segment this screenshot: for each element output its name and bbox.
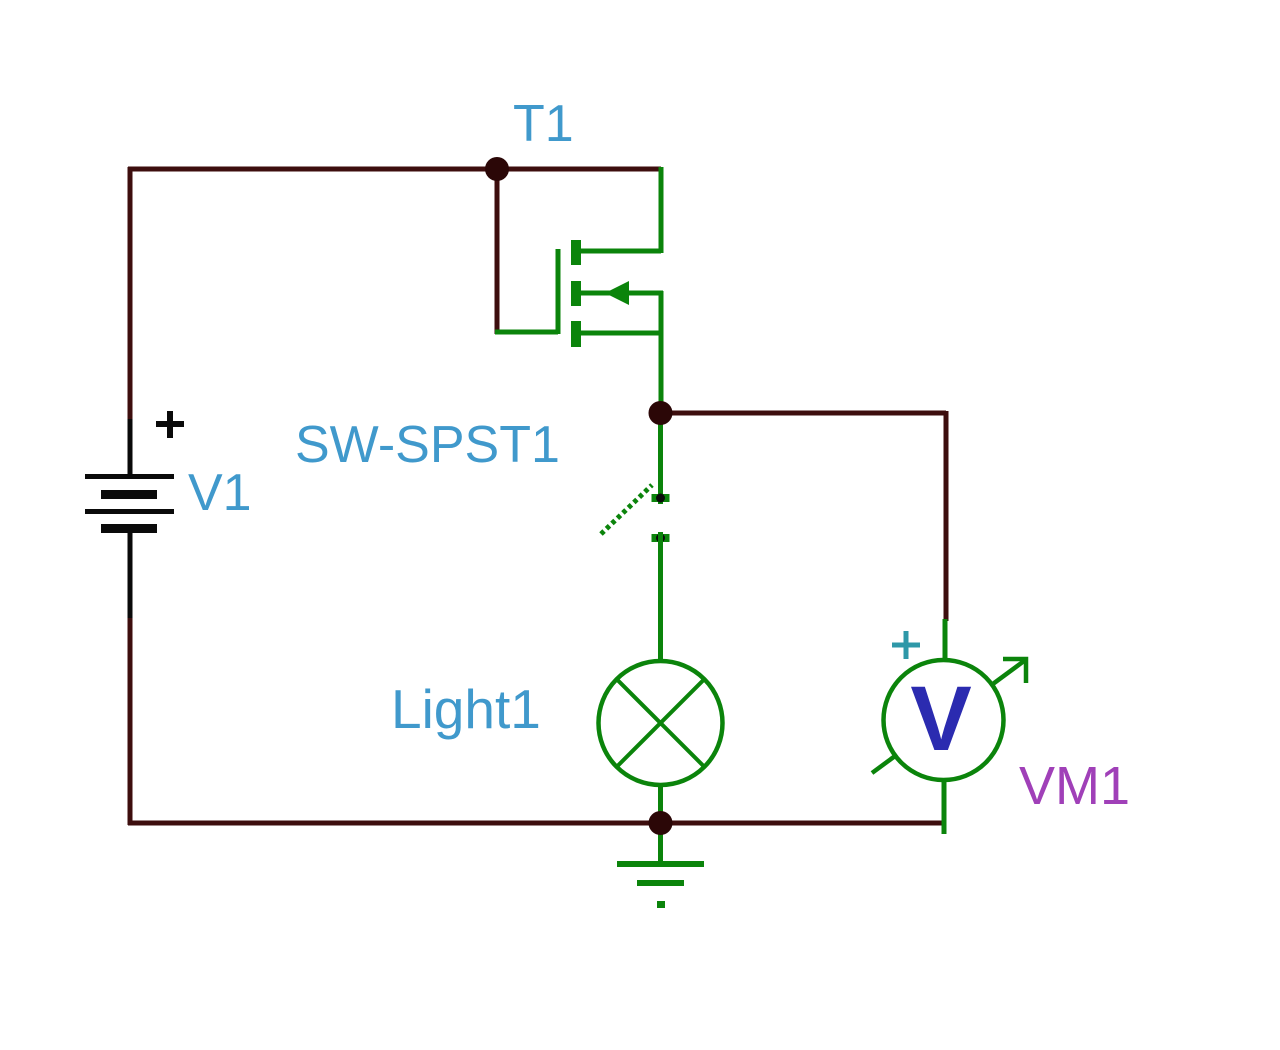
- battery plate 4 short thick: [101, 524, 157, 533]
- svg-text:SW-SPST1: SW-SPST1: [295, 416, 560, 474]
- battery plus sign: [156, 411, 184, 438]
- node T1 junction: [485, 157, 509, 181]
- transistor T1 NMOS: [495, 167, 663, 413]
- ground bar 1: [617, 861, 704, 867]
- drain lead: [578, 249, 661, 254]
- switch SW-SPST1: [601, 413, 670, 660]
- voltmeter arrowhead: [1003, 659, 1026, 683]
- voltmeter bottom lead: [942, 780, 947, 834]
- wire left vertical (top wire to battery +): [128, 167, 133, 419]
- wire bottom horizontal (battery - to voltmeter -): [128, 821, 944, 826]
- ground stem: [658, 823, 663, 862]
- gate lead horizontal: [495, 330, 558, 335]
- node source junction: [649, 401, 673, 425]
- wire top horizontal (T1 node to drain corner): [128, 167, 661, 172]
- body arrow: [605, 281, 629, 305]
- channel bar body: [571, 281, 581, 306]
- switch top contact: [652, 494, 670, 502]
- lamp X stroke 2: [617, 679, 705, 767]
- ground bar 2: [637, 880, 684, 886]
- node ground junction: [649, 811, 673, 835]
- switch bottom lead: [658, 532, 663, 660]
- lamp circle: [599, 661, 723, 785]
- source lead: [578, 331, 661, 336]
- channel bar drain: [571, 240, 581, 265]
- switch top lead: [658, 413, 663, 504]
- ground: [617, 823, 704, 908]
- wire gate branch vertical (T1 node down): [495, 169, 500, 334]
- channel bar source: [571, 321, 581, 347]
- ground bar 3: [657, 901, 665, 908]
- battery top lead: [128, 419, 133, 477]
- gate bar vertical: [556, 249, 561, 334]
- battery V1: [85, 411, 184, 618]
- voltmeter circle: [884, 660, 1004, 780]
- battery bottom lead: [128, 533, 133, 618]
- voltmeter top lead: [943, 619, 948, 662]
- source vertical to node: [659, 291, 664, 413]
- voltmeter VM1: [872, 619, 1026, 834]
- wire right vertical (to voltmeter + lead): [944, 411, 949, 621]
- voltmeter plus sign: [892, 631, 920, 659]
- switch lever dashed: [601, 485, 652, 534]
- svg-text:Light1: Light1: [391, 678, 541, 740]
- svg-text:V: V: [910, 668, 971, 770]
- voltmeter arrow diagonal: [872, 661, 1024, 773]
- svg-text:V1: V1: [188, 464, 252, 522]
- wire middle horizontal (source node to voltmeter +): [660, 411, 946, 416]
- body lead with arrow: [578, 291, 663, 296]
- switch bottom contact: [652, 534, 670, 542]
- battery plate 1 long: [85, 474, 174, 479]
- lamp Light1: [599, 661, 723, 823]
- battery plate 2 short thick: [101, 490, 157, 499]
- svg-text:T1: T1: [513, 95, 574, 153]
- wire left vertical (battery - to bottom wire): [128, 618, 133, 825]
- battery plate 3 long: [85, 509, 174, 514]
- lamp X stroke 1: [617, 679, 705, 767]
- svg-text:VM1: VM1: [1019, 756, 1130, 816]
- drain lead vertical up: [659, 167, 664, 253]
- lamp bottom lead: [658, 785, 663, 823]
